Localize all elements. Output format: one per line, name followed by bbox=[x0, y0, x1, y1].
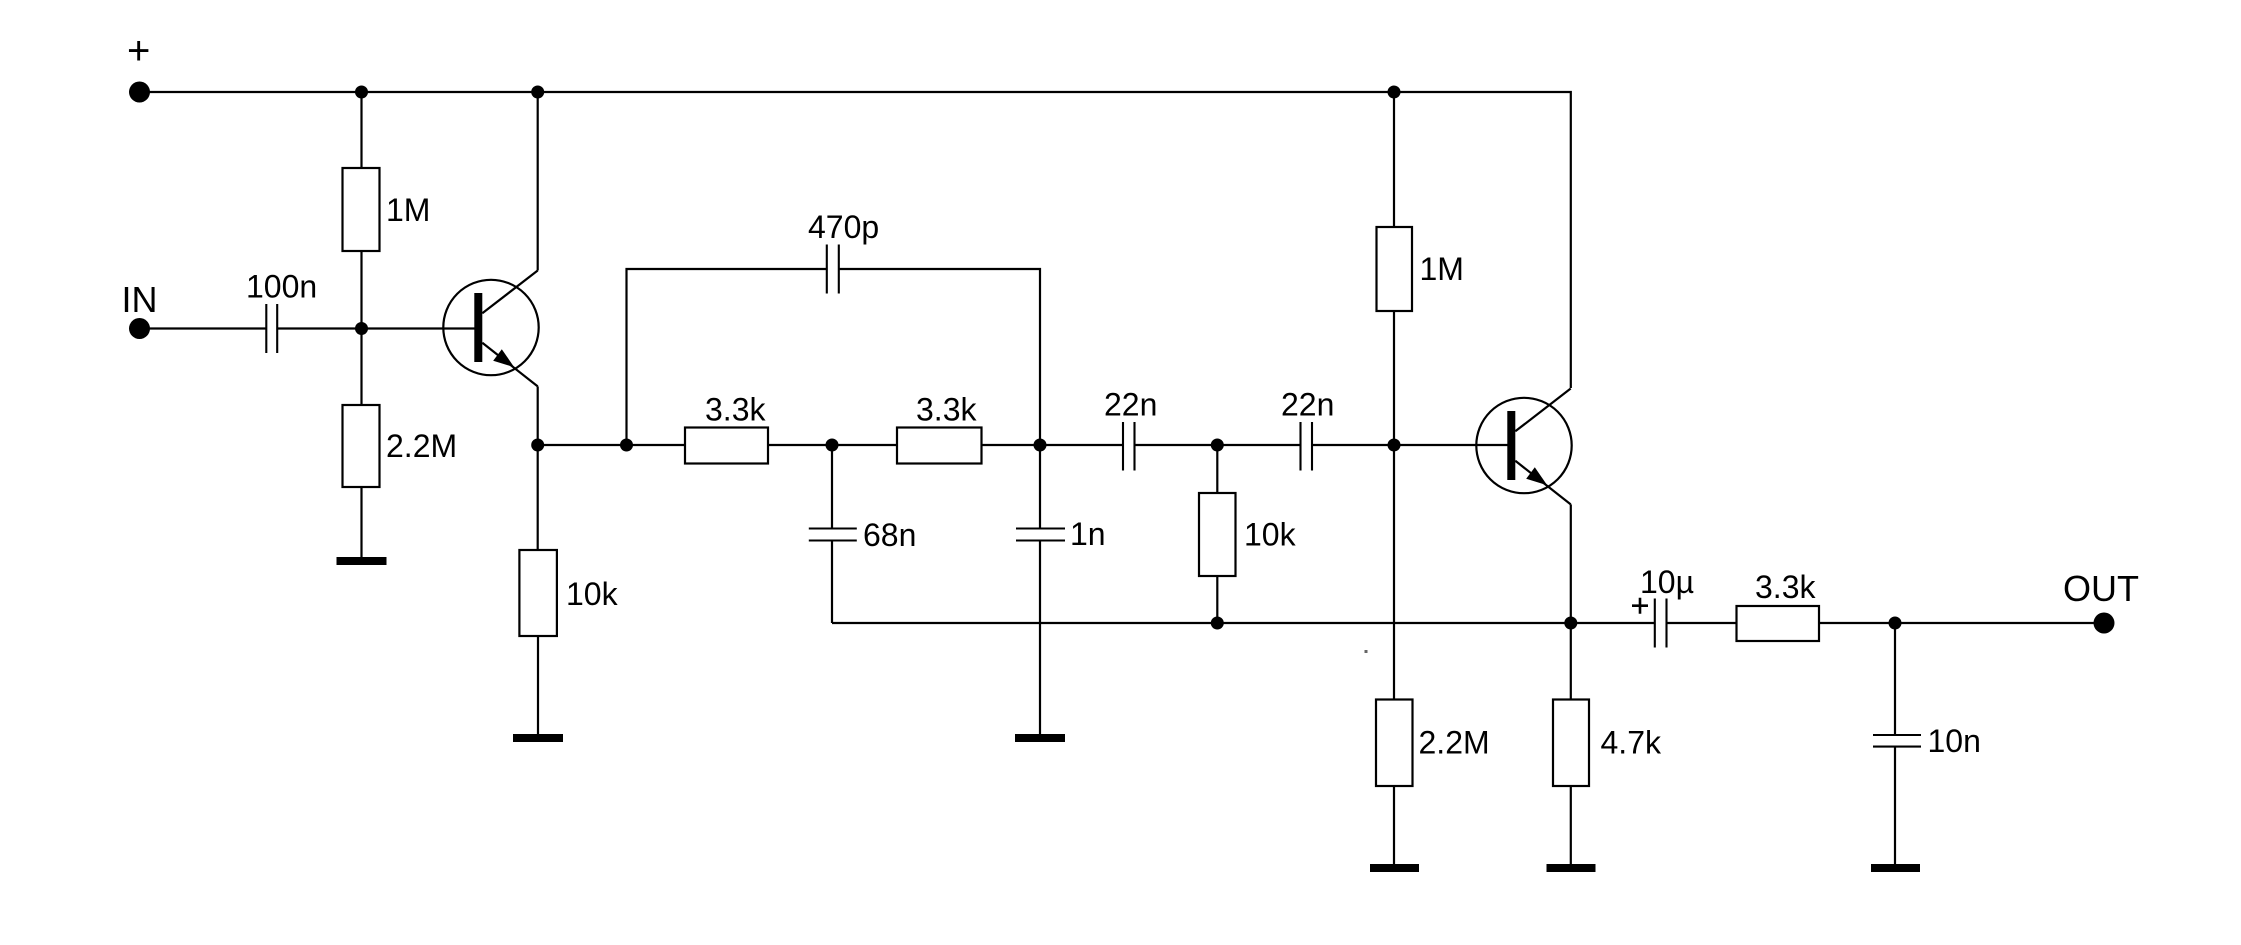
wire bottom bus bbox=[832, 622, 1655, 624]
node supply terminal dot bbox=[129, 82, 150, 103]
ground below C 10n bbox=[1871, 864, 1920, 872]
svg-text:100n: 100n bbox=[246, 269, 317, 305]
wire C6 to Q2 base bbox=[1312, 444, 1508, 446]
svg-text:2.2M: 2.2M bbox=[386, 428, 457, 464]
wire top supply rail bbox=[140, 92, 1571, 388]
wire R9 to ground bbox=[1570, 786, 1572, 864]
node junction base node bbox=[355, 322, 368, 335]
node junction 68n tap bbox=[826, 439, 839, 452]
wire R7 to Q2 base node bbox=[1393, 311, 1395, 445]
node junction Q2 emitter bbox=[1564, 617, 1577, 630]
capacitor C1 100n bbox=[266, 304, 277, 353]
wire R10 to OUT bbox=[1820, 622, 2105, 624]
resistor R5 10k bbox=[1199, 493, 1236, 576]
transistor Q2 bbox=[1476, 389, 1571, 505]
node junction bus/R5 bbox=[1211, 617, 1224, 630]
wire C7 to R10 bbox=[1667, 622, 1738, 624]
wire Q1 collector to rail bbox=[537, 92, 539, 271]
wire R6 to ground bbox=[537, 636, 539, 734]
resistor R10 3.3k bbox=[1737, 606, 1820, 641]
wire 10k tap down bbox=[1216, 445, 1218, 493]
wire rail to R 1M right bbox=[1393, 92, 1395, 227]
ground below R 10k left bbox=[513, 734, 563, 742]
svg-text:3.3k: 3.3k bbox=[705, 392, 766, 428]
svg-text:22n: 22n bbox=[1104, 387, 1157, 423]
node junction 10n tap bbox=[1889, 617, 1902, 630]
node junction rail/Q1 collector bbox=[531, 86, 544, 99]
node junction rail/R 1M left bbox=[355, 86, 368, 99]
resistor R3 3.3k bbox=[685, 428, 768, 464]
svg-text:IN: IN bbox=[122, 279, 158, 320]
transistor Q1 bbox=[443, 271, 538, 387]
capacitor C7 10u electrolytic bbox=[1655, 599, 1667, 648]
wire 4.7k branch bbox=[1570, 623, 1572, 700]
resistor R4 3.3k bbox=[897, 428, 982, 464]
svg-text:22n: 22n bbox=[1281, 387, 1334, 423]
wire R3 to R4 bbox=[768, 444, 897, 446]
ground below R 2.2M right bbox=[1370, 864, 1419, 872]
node junction feedback tap bbox=[620, 439, 633, 452]
wire rail to R 1M left bbox=[360, 92, 362, 168]
node junction 1n tap bbox=[1034, 439, 1047, 452]
resistor R7 1M bbox=[1377, 227, 1413, 311]
capacitor C2 470p bbox=[827, 245, 839, 294]
capacitor C8 10n bbox=[1873, 735, 1921, 747]
wire C8 to ground bbox=[1894, 747, 1896, 864]
wire R8 to ground bbox=[1393, 786, 1395, 864]
wire R 2.2M left to ground bbox=[360, 487, 362, 557]
wire base node to R 2.2M left bbox=[360, 329, 362, 406]
svg-text:10k: 10k bbox=[566, 576, 619, 612]
svg-text:10n: 10n bbox=[1928, 723, 1981, 759]
wire 68n to bottom bus bbox=[831, 541, 833, 624]
node junction 10k tap bbox=[1211, 439, 1224, 452]
resistor R2 2.2M bbox=[343, 405, 380, 487]
resistor R8 2.2M bbox=[1376, 700, 1413, 787]
wire emitter node to R 10k left bbox=[537, 445, 539, 550]
stray ink speck bbox=[1365, 650, 1368, 653]
ground below R 2.2M left bbox=[337, 557, 387, 565]
wire C5 to C6 bbox=[1135, 444, 1301, 446]
svg-text:2.2M: 2.2M bbox=[1419, 725, 1490, 761]
capacitor C4 1n bbox=[1016, 529, 1065, 541]
wire feedback riser right bbox=[839, 269, 1040, 445]
svg-text:1n: 1n bbox=[1070, 516, 1106, 552]
resistor R1 1M bbox=[343, 168, 380, 251]
capacitor C3 68n bbox=[809, 529, 857, 541]
wire emitter node to R 3.3k first bbox=[538, 444, 685, 446]
capacitor C6 22n bbox=[1301, 422, 1313, 471]
svg-text:OUT: OUT bbox=[2063, 568, 2139, 609]
resistor R9 4.7k bbox=[1553, 700, 1589, 787]
wire IN to C 100n bbox=[140, 327, 267, 329]
node junction Q1 emitter bbox=[531, 439, 544, 452]
svg-text:3.3k: 3.3k bbox=[1755, 569, 1816, 605]
svg-text:10k: 10k bbox=[1244, 517, 1297, 553]
svg-text:1M: 1M bbox=[1420, 251, 1464, 287]
wire feedback riser left bbox=[627, 269, 827, 445]
svg-text:1M: 1M bbox=[386, 192, 430, 228]
wire 1n to ground bbox=[1039, 541, 1041, 735]
wire R5 to bottom bus bbox=[1216, 576, 1218, 623]
wire Q2 base node to R 2.2M right bbox=[1393, 445, 1395, 700]
svg-text:68n: 68n bbox=[863, 517, 916, 553]
ground below R 4.7k bbox=[1547, 864, 1596, 872]
wire 10n branch bbox=[1894, 623, 1896, 735]
svg-text:+: + bbox=[127, 29, 150, 73]
wire Q1 emitter down bbox=[537, 386, 539, 445]
svg-text:3.3k: 3.3k bbox=[916, 392, 977, 428]
wire Q2 emitter down bbox=[1570, 504, 1572, 623]
node junction Q2 base node bbox=[1388, 439, 1401, 452]
svg-text:470p: 470p bbox=[808, 209, 879, 245]
wire C 100n to Q1 base bbox=[277, 327, 474, 329]
resistor R6 10k bbox=[519, 550, 557, 636]
ground below C 1n bbox=[1015, 734, 1065, 742]
wire 68n tap down bbox=[831, 445, 833, 529]
wire R4 to C 22n first bbox=[981, 444, 1123, 446]
node junction rail/R 1M right bbox=[1388, 86, 1401, 99]
svg-text:4.7k: 4.7k bbox=[1601, 725, 1662, 761]
wire R 1M left to base node bbox=[360, 251, 362, 329]
capacitor C5 22n bbox=[1123, 422, 1135, 471]
node OUT terminal bbox=[2094, 613, 2115, 634]
wire 1n tap down bbox=[1039, 445, 1041, 529]
svg-text:10µ: 10µ bbox=[1640, 564, 1694, 600]
